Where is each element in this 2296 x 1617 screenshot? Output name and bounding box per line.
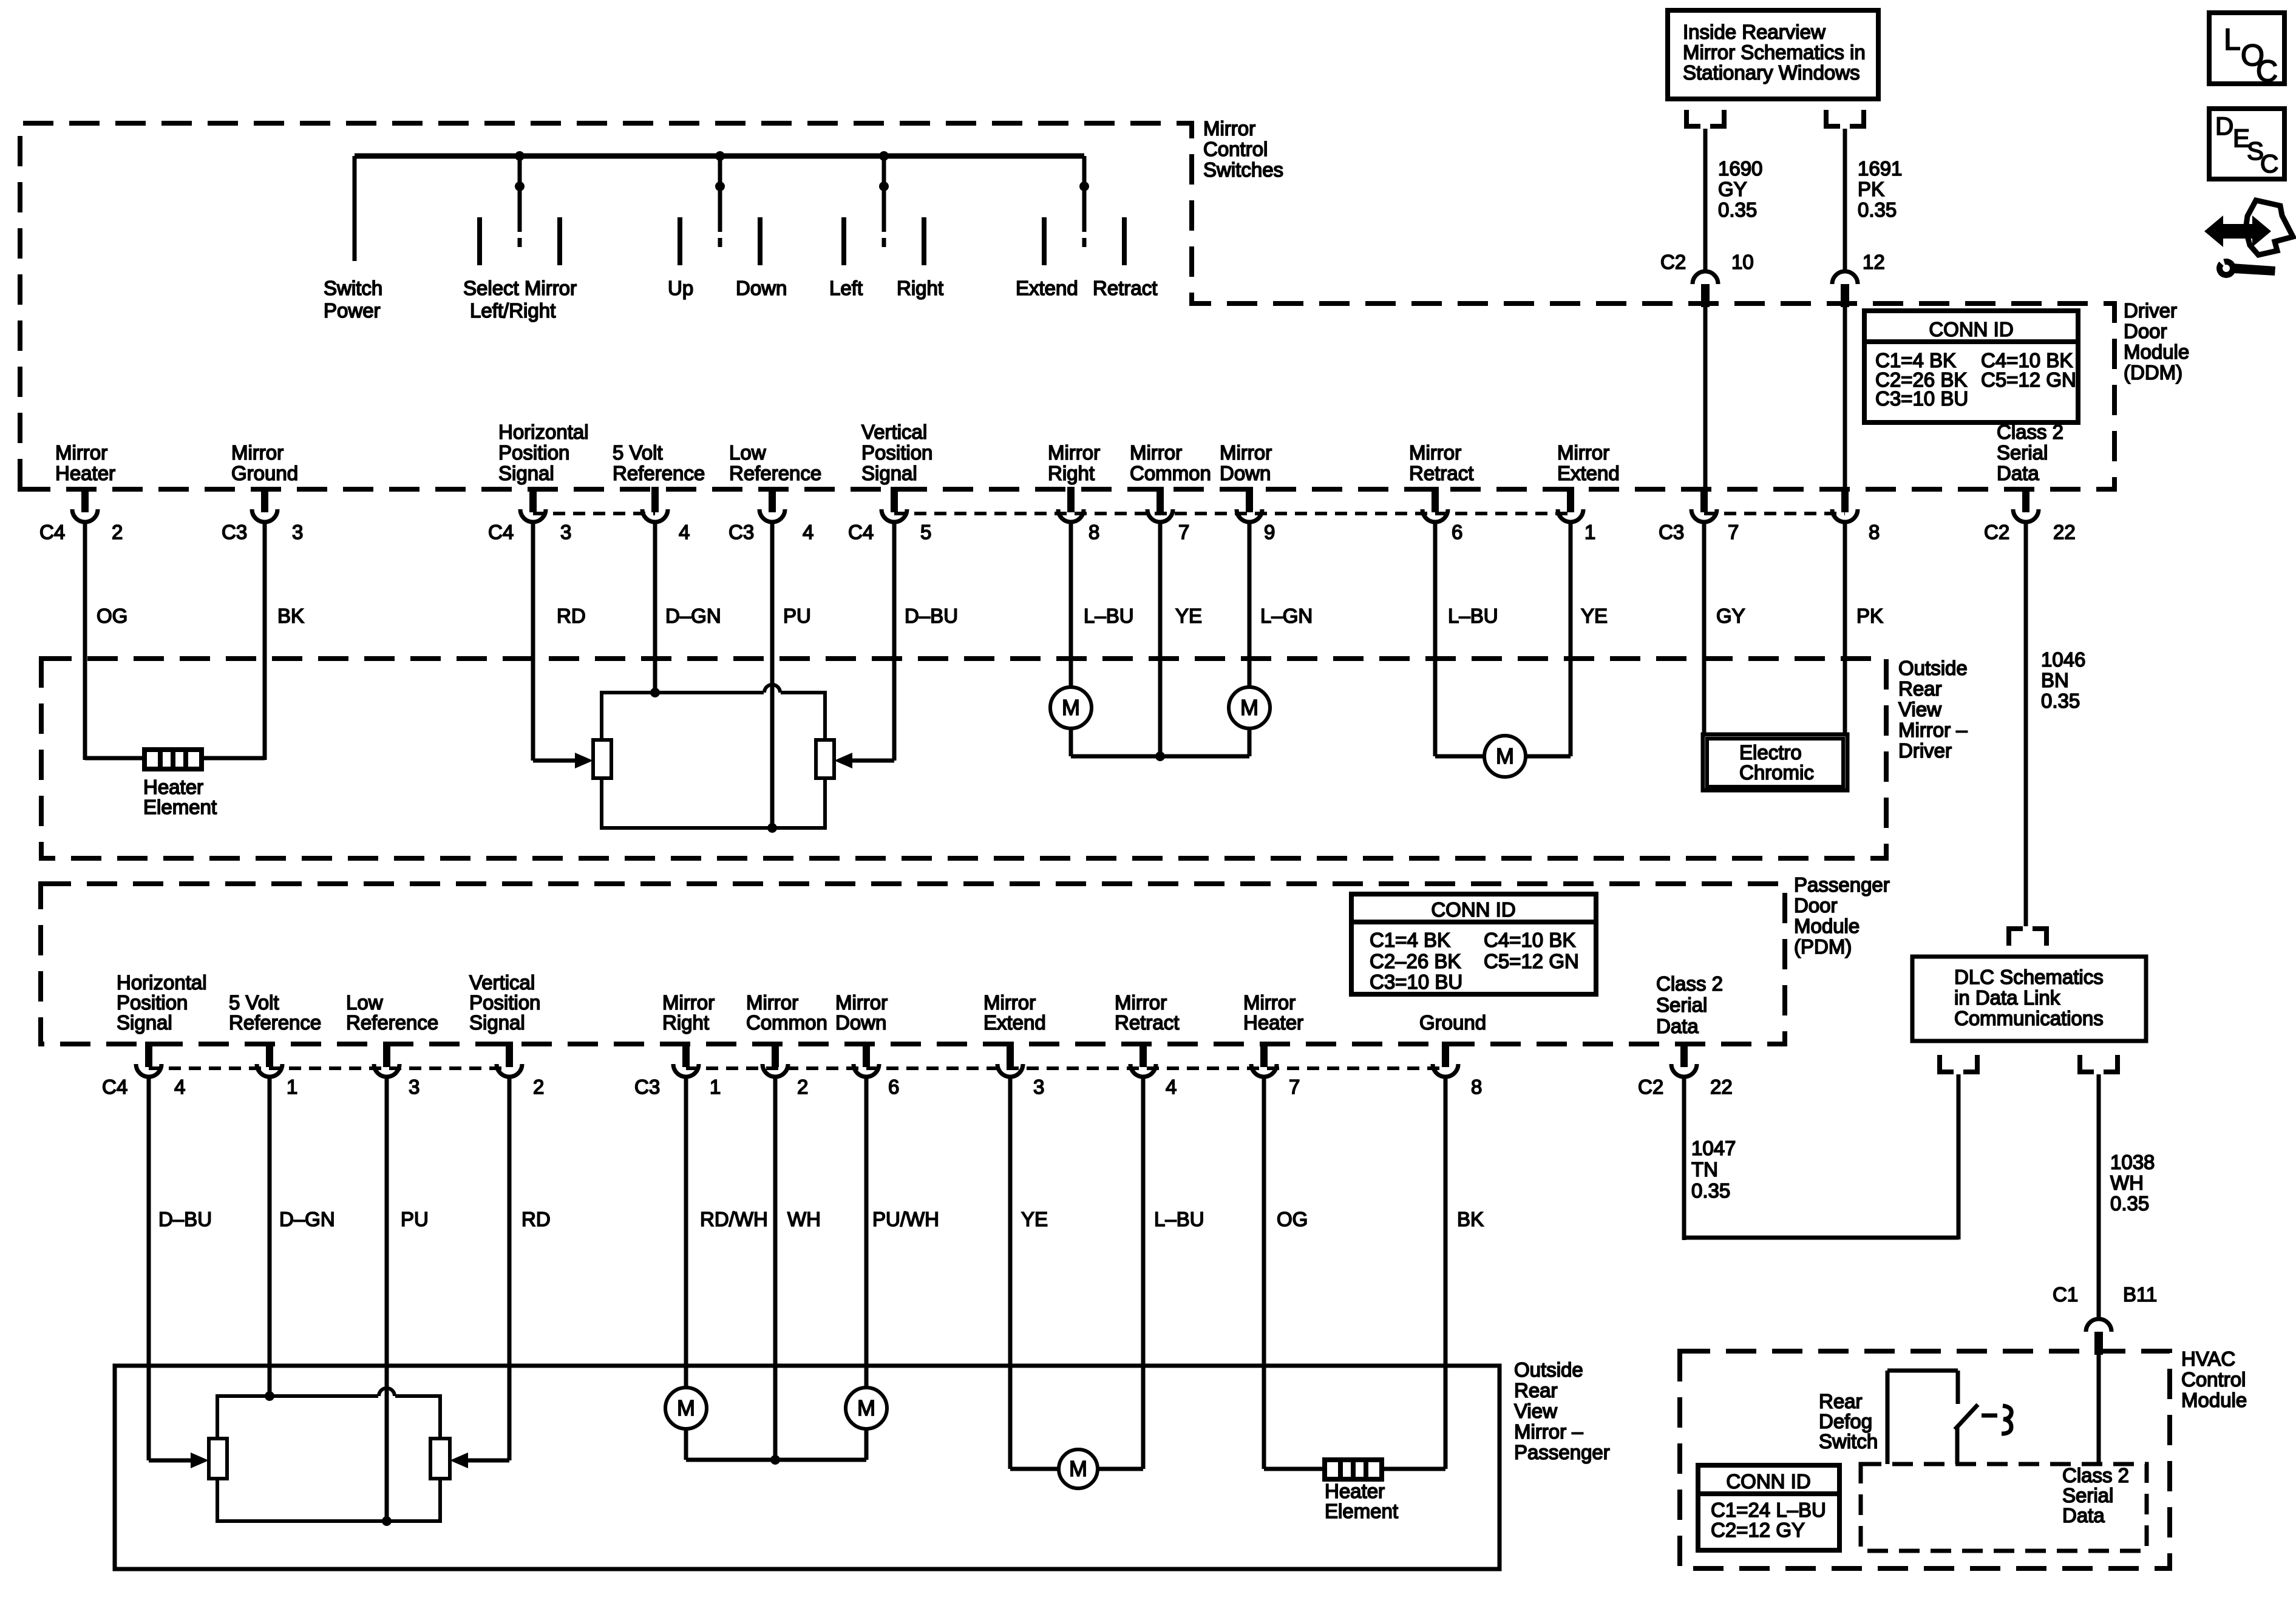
svg-text:4: 4 [174,1076,185,1098]
svg-text:Element: Element [1325,1500,1398,1522]
svg-text:1038: 1038 [2110,1151,2155,1173]
svg-text:Extend: Extend [983,1011,1046,1034]
svg-text:C4: C4 [848,521,874,543]
svg-text:C4: C4 [102,1076,127,1098]
svg-text:3: 3 [409,1076,419,1098]
svg-text:Extend: Extend [1016,277,1078,299]
svg-text:1690: 1690 [1718,157,1762,180]
svg-text:L–GN: L–GN [1260,605,1313,627]
svg-text:5 Volt: 5 Volt [229,991,279,1014]
svg-text:OG: OG [1277,1208,1308,1230]
svg-text:Control: Control [2181,1368,2246,1391]
svg-text:Passenger: Passenger [1794,873,1890,896]
svg-text:Mirror: Mirror [231,441,284,464]
svg-text:D–BU: D–BU [158,1208,212,1230]
svg-text:Low: Low [729,441,766,464]
svg-text:Horizontal: Horizontal [117,971,207,994]
svg-text:Electro: Electro [1739,741,1802,764]
svg-text:BN: BN [2041,669,2069,691]
svg-text:C2=12 GY: C2=12 GY [1711,1519,1805,1541]
svg-text:L–BU: L–BU [1154,1208,1204,1230]
svg-text:2: 2 [112,521,123,543]
svg-text:RD/WH: RD/WH [700,1208,768,1230]
svg-text:Data: Data [1997,462,2039,484]
svg-text:Down: Down [835,1011,886,1034]
svg-text:Extend: Extend [1557,462,1620,484]
svg-text:C4: C4 [39,521,65,543]
svg-text:Mirror: Mirror [1115,991,1167,1014]
svg-text:1: 1 [1584,521,1595,543]
svg-text:Mirror: Mirror [835,991,888,1014]
svg-text:12: 12 [1863,251,1885,273]
svg-text:2: 2 [533,1076,544,1098]
svg-text:5: 5 [920,521,931,543]
svg-text:View: View [1898,698,1941,720]
svg-text:Retract: Retract [1115,1011,1179,1034]
svg-text:3: 3 [292,521,303,543]
svg-text:C3: C3 [634,1076,660,1098]
svg-text:Class 2: Class 2 [1656,972,1723,995]
svg-text:Data: Data [1656,1015,1699,1037]
svg-text:Element: Element [143,796,217,818]
svg-text:1046: 1046 [2041,648,2085,671]
svg-text:Position: Position [861,441,932,464]
svg-text:PU/WH: PU/WH [872,1208,939,1230]
svg-text:PK: PK [1856,605,1883,627]
svg-text:Low: Low [346,991,383,1014]
svg-text:Signal: Signal [861,462,917,484]
svg-text:Inside Rearview: Inside Rearview [1683,21,1826,43]
svg-text:Common: Common [746,1011,827,1034]
svg-text:Right: Right [662,1011,709,1034]
svg-text:C3=10 BU: C3=10 BU [1370,971,1462,993]
svg-text:Driver: Driver [1898,739,1952,762]
svg-text:8: 8 [1471,1076,1482,1098]
svg-text:7: 7 [1728,521,1739,543]
svg-text:Signal: Signal [469,1011,525,1034]
svg-text:HVAC: HVAC [2181,1347,2235,1370]
svg-text:Reference: Reference [229,1011,321,1034]
svg-text:Stationary Windows: Stationary Windows [1683,61,1860,84]
svg-text:PU: PU [783,605,811,627]
svg-text:3: 3 [560,521,571,543]
svg-text:Retract: Retract [1409,462,1473,484]
svg-text:Signal: Signal [498,462,554,484]
svg-text:1: 1 [287,1076,297,1098]
svg-text:Down: Down [1220,462,1271,484]
svg-text:0.35: 0.35 [1718,198,1757,221]
svg-text:Defog: Defog [1819,1410,1872,1432]
svg-text:Driver: Driver [2124,299,2177,322]
svg-text:Passenger: Passenger [1514,1441,1610,1463]
svg-text:L: L [2224,22,2241,56]
svg-text:BK: BK [1457,1208,1484,1230]
svg-text:Heater: Heater [143,776,203,798]
svg-text:Mirror: Mirror [1048,441,1100,464]
svg-text:Rear: Rear [1514,1379,1558,1402]
svg-text:C5=12 GN: C5=12 GN [1484,950,1579,972]
svg-text:0.35: 0.35 [1691,1179,1730,1202]
svg-text:9: 9 [1264,521,1275,543]
svg-text:Door: Door [2124,320,2167,342]
svg-text:C4=10 BK: C4=10 BK [1484,929,1575,951]
svg-text:Class 2: Class 2 [2062,1464,2129,1486]
svg-text:Reference: Reference [613,462,705,484]
svg-text:C3=10 BU: C3=10 BU [1875,387,1968,410]
svg-text:RD: RD [521,1208,551,1230]
svg-text:C3: C3 [729,521,754,543]
svg-text:Heater: Heater [1243,1011,1303,1034]
svg-text:Serial: Serial [1997,441,2048,464]
svg-text:C1=24 L–BU: C1=24 L–BU [1711,1499,1826,1521]
svg-text:GY: GY [1718,178,1747,200]
svg-text:Serial: Serial [2062,1484,2113,1507]
svg-text:4: 4 [679,521,690,543]
svg-text:Up: Up [668,277,693,299]
svg-text:Signal: Signal [117,1011,172,1034]
svg-text:Control: Control [1203,138,1268,160]
svg-text:in Data Link: in Data Link [1954,986,2060,1009]
svg-text:Door: Door [1794,894,1838,917]
svg-text:B11: B11 [2123,1283,2157,1306]
svg-text:C1=4 BK: C1=4 BK [1370,929,1450,951]
svg-text:TN: TN [1691,1158,1718,1181]
svg-text:Mirror Schematics in: Mirror Schematics in [1683,41,1866,64]
svg-text:Outside: Outside [1898,657,1968,679]
svg-text:Switch: Switch [1819,1430,1878,1453]
svg-text:Common: Common [1130,462,1211,484]
svg-text:C: C [2260,149,2278,178]
svg-text:YE: YE [1021,1208,1048,1230]
svg-text:PU: PU [401,1208,429,1230]
svg-text:Switch: Switch [324,277,382,299]
svg-text:Chromic: Chromic [1739,761,1814,784]
svg-text:C4: C4 [488,521,514,543]
svg-text:Heater: Heater [55,462,115,484]
svg-text:Retract: Retract [1093,277,1157,299]
svg-text:Mirror: Mirror [1243,991,1296,1014]
svg-text:C2: C2 [1660,251,1686,273]
svg-text:C3: C3 [1659,521,1684,543]
svg-text:1047: 1047 [1691,1137,1736,1159]
svg-text:Switches: Switches [1203,158,1283,181]
svg-text:C2: C2 [1638,1076,1663,1098]
svg-text:M: M [1062,695,1080,720]
svg-text:C2–26 BK: C2–26 BK [1370,950,1461,972]
svg-text:Power: Power [324,299,381,322]
svg-text:1691: 1691 [1858,157,1902,180]
svg-text:DLC Schematics: DLC Schematics [1954,966,2104,988]
svg-text:Mirror: Mirror [746,991,798,1014]
svg-text:Position: Position [117,991,188,1014]
svg-text:Mirror: Mirror [1130,441,1182,464]
svg-text:OG: OG [97,605,127,627]
svg-text:Select Mirror: Select Mirror [463,277,577,299]
svg-text:View: View [1514,1400,1557,1422]
svg-text:Module: Module [1794,915,1860,937]
svg-text:7: 7 [1289,1076,1300,1098]
svg-text:Right: Right [1048,462,1095,484]
svg-text:2: 2 [797,1076,808,1098]
svg-text:CONN ID: CONN ID [1726,1470,1810,1493]
svg-text:Mirror: Mirror [1557,441,1609,464]
svg-text:Data: Data [2062,1504,2105,1527]
svg-text:3: 3 [1033,1076,1044,1098]
svg-text:Mirror: Mirror [662,991,715,1014]
svg-text:C2: C2 [1984,521,2009,543]
svg-text:M: M [857,1395,875,1420]
svg-text:RD: RD [557,605,586,627]
svg-text:D: D [2215,112,2233,140]
svg-text:CONN ID: CONN ID [1929,318,2013,341]
svg-text:(DDM): (DDM) [2124,361,2182,384]
svg-text:WH: WH [787,1208,821,1230]
svg-text:8: 8 [1089,521,1099,543]
svg-text:Left: Left [829,277,863,299]
svg-text:4: 4 [803,521,813,543]
svg-text:Reference: Reference [346,1011,438,1034]
svg-text:Mirror –: Mirror – [1898,719,1968,741]
svg-text:L–BU: L–BU [1448,605,1498,627]
svg-text:Reference: Reference [729,462,821,484]
svg-text:Mirror: Mirror [1409,441,1461,464]
svg-text:M: M [1496,744,1514,768]
svg-text:Outside: Outside [1514,1358,1583,1381]
svg-text:BK: BK [277,605,304,627]
svg-text:D–GN: D–GN [279,1208,335,1230]
svg-text:M: M [677,1395,695,1420]
svg-text:C3: C3 [222,521,247,543]
svg-text:4: 4 [1166,1076,1177,1098]
svg-text:WH: WH [2110,1171,2144,1194]
svg-text:Right: Right [897,277,943,299]
svg-text:YE: YE [1175,605,1202,627]
svg-text:C1: C1 [2053,1283,2078,1306]
svg-text:GY: GY [1716,605,1745,627]
svg-text:M: M [1069,1456,1087,1481]
svg-text:Rear: Rear [1819,1390,1863,1412]
svg-text:5 Volt: 5 Volt [613,441,663,464]
svg-text:Module: Module [2181,1389,2247,1411]
svg-text:PK: PK [1858,178,1884,200]
svg-text:Vertical: Vertical [861,421,927,443]
svg-text:Position: Position [469,991,540,1014]
svg-text:M: M [1240,695,1258,720]
svg-text:C: C [2256,54,2278,88]
svg-text:22: 22 [2053,521,2076,543]
svg-text:CONN ID: CONN ID [1431,898,1515,921]
svg-text:Communications: Communications [1954,1007,2104,1029]
svg-text:Module: Module [2124,341,2189,363]
svg-text:6: 6 [1452,521,1462,543]
svg-text:D–BU: D–BU [905,605,958,627]
svg-text:Serial: Serial [1656,994,1707,1016]
svg-text:7: 7 [1178,521,1189,543]
svg-text:0.35: 0.35 [2110,1192,2149,1215]
svg-text:Mirror: Mirror [1203,117,1255,140]
svg-text:Mirror: Mirror [983,991,1036,1014]
svg-text:10: 10 [1731,251,1754,273]
svg-text:Mirror: Mirror [1220,441,1272,464]
svg-text:0.35: 0.35 [1858,198,1897,221]
svg-text:Ground: Ground [231,462,298,484]
svg-text:D–GN: D–GN [665,605,721,627]
svg-text:C5=12 GN: C5=12 GN [1981,368,2076,391]
svg-text:Position: Position [498,441,569,464]
svg-text:YE: YE [1581,605,1608,627]
svg-text:Rear: Rear [1898,677,1942,700]
svg-text:Heater: Heater [1325,1480,1385,1502]
svg-text:Mirror –: Mirror – [1514,1420,1583,1443]
svg-text:8: 8 [1869,521,1880,543]
svg-text:Mirror: Mirror [55,441,107,464]
svg-text:L–BU: L–BU [1084,605,1134,627]
svg-text:Left/Right: Left/Right [470,299,555,322]
svg-text:6: 6 [888,1076,899,1098]
svg-text:1: 1 [710,1076,721,1098]
svg-text:0.35: 0.35 [2041,690,2080,712]
svg-text:Ground: Ground [1419,1011,1486,1034]
svg-text:(PDM): (PDM) [1794,935,1852,958]
svg-text:Down: Down [736,277,787,299]
svg-text:22: 22 [1710,1076,1733,1098]
svg-text:Horizontal: Horizontal [498,421,589,443]
svg-text:Vertical: Vertical [469,971,535,994]
